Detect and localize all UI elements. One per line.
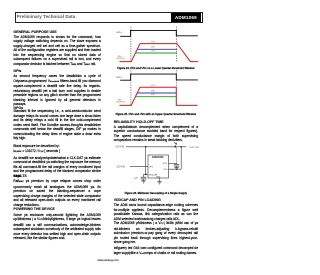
figure 3: supply circuit <box>0 0 213 275</box>
wire: 2.5V input to VPn pin <box>130 166 148 168</box>
heading: VDDCAP <box>114 198 161 202</box>
ground under C2 <box>176 166 178 168</box>
wire: VCCP branch vertical and into pin <box>169 147 182 169</box>
fig1 green UV threshold line <box>136 52 178 54</box>
fig1 dashed marker line right <box>176 27 178 63</box>
fig2 red supply trace with sharp fall <box>120 87 198 105</box>
junction on rail to VCCP branch <box>180 146 182 148</box>
transistor Q1 on rail <box>174 146 176 148</box>
junction at VDDCAP node <box>145 174 147 176</box>
fig2 green UV threshold line <box>136 96 177 98</box>
capacitor C1 <box>144 173 146 175</box>
svg-text:1µF: 1µF <box>134 178 138 180</box>
capacitor C2 <box>176 163 178 164</box>
junction on rail feeding VDDCAP branch <box>145 146 147 148</box>
caption figure 3 <box>114 192 198 195</box>
heading: GPIs <box>13 69 21 73</box>
heading: GPOs <box>13 106 23 110</box>
formula intro <box>13 144 100 149</box>
fig2 black digital output trace <box>120 74 198 80</box>
fig1 blue OV threshold line <box>137 48 177 50</box>
fig1 black digital output trace <box>120 30 198 36</box>
svg-text:VOUT: VOUT <box>163 169 167 171</box>
svg-text:2.5 V IN: 2.5 V IN <box>117 166 126 168</box>
caption figure 1 <box>114 67 198 70</box>
fig2 dashed marker line right <box>175 70 177 106</box>
svg-text:3.3 V IN: 3.3 V IN <box>116 147 125 149</box>
wire: into VDDCAP pin <box>146 173 148 175</box>
ground under C1 <box>143 179 145 181</box>
ground under IC <box>159 178 161 182</box>
IC U1 box <box>148 155 169 178</box>
wire: top supply rail <box>126 146 186 148</box>
svg-text:VP1: VP1 <box>149 167 153 169</box>
svg-text:GND: GND <box>156 176 161 178</box>
wire: transistor branch down to C2 <box>176 147 178 164</box>
svg-text:VCCP: VCCP <box>163 163 167 165</box>
svg-text:ADM1069: ADM1069 <box>152 155 164 159</box>
formula <box>13 149 100 155</box>
heading: hold-off <box>114 120 164 124</box>
header box <box>15 12 203 23</box>
part number tab <box>171 13 201 22</box>
fig2 blue OV threshold line <box>137 92 176 94</box>
heading: OVERALL OPERATION <box>13 30 56 34</box>
caption figure 2 <box>114 113 198 116</box>
figure 1: waveform, ramp-down version <box>0 0 213 275</box>
fig1 red supply trace <box>120 44 199 62</box>
heading: FAULTS <box>13 174 26 178</box>
fig1 dashed marker line left <box>130 27 132 63</box>
heading: POWERING THE DEVICE <box>13 207 54 211</box>
footer www.analog.com <box>98 259 119 262</box>
svg-text:5.0V OUT: 5.0V OUT <box>190 147 200 149</box>
wire: VDDCAP branch vertical <box>145 147 147 175</box>
fig2 dashed marker line left <box>130 70 132 106</box>
wire: upper right pin to C2 node <box>169 162 177 164</box>
header title <box>17 14 76 19</box>
